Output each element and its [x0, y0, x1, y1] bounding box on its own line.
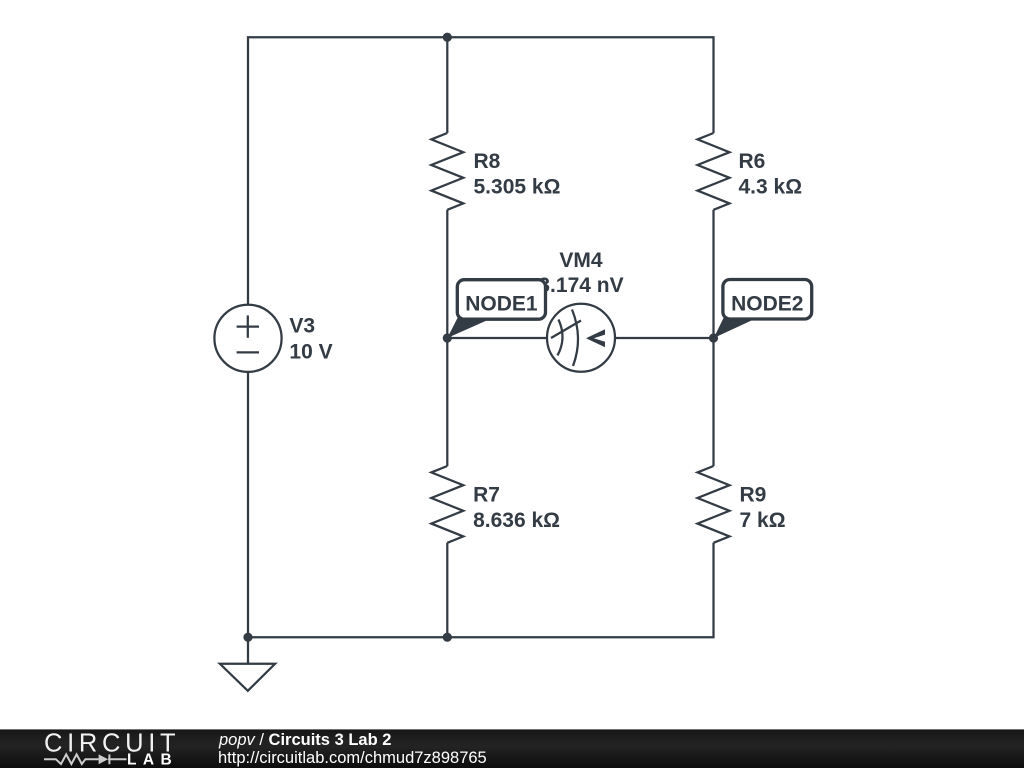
junction node NODE2 dot	[709, 333, 718, 342]
junction dot top middle	[443, 33, 452, 42]
wire right branch (NODE2 to R9)	[712, 338, 714, 466]
wire voltmeter row (NODE1 to NODE2)	[447, 337, 713, 339]
wire middle branch top (top rail to R8)	[446, 37, 448, 133]
resistor R6	[698, 133, 730, 210]
wire middle branch (R8 to NODE1)	[446, 210, 448, 338]
svg-text:LAB: LAB	[127, 751, 178, 768]
wire middle branch bottom (R7 to bottom rail)	[446, 543, 448, 637]
junction dot bottom middle	[443, 633, 452, 642]
svg-text:5.305 kΩ: 5.305 kΩ	[474, 175, 561, 198]
CircuitLab logo resistor-diode graphic	[44, 754, 127, 764]
wire middle branch (NODE1 to R7)	[446, 338, 448, 466]
svg-text:R7: R7	[473, 483, 500, 506]
svg-text:4.3 kΩ: 4.3 kΩ	[739, 175, 803, 198]
wire right branch (R6 to NODE2)	[712, 210, 714, 338]
svg-text:VM4: VM4	[559, 249, 603, 272]
svg-text:R9: R9	[740, 483, 767, 506]
svg-text:8.636 kΩ: 8.636 kΩ	[473, 509, 560, 532]
junction node NODE1 dot	[443, 333, 452, 342]
svg-text:7 kΩ: 7 kΩ	[740, 509, 786, 532]
svg-text:3.174 nV: 3.174 nV	[538, 274, 623, 297]
node NODE1 callout	[447, 280, 545, 338]
svg-text:NODE1: NODE1	[465, 292, 538, 315]
wire left vertical top, top rail and right branch top (V3 to R6)	[248, 37, 714, 305]
resistor R8	[431, 133, 463, 210]
voltmeter VM4	[547, 304, 615, 372]
node NODE2 callout	[714, 280, 812, 339]
svg-text:10 V: 10 V	[289, 341, 332, 364]
svg-text:http://circuitlab.com/chmud7z8: http://circuitlab.com/chmud7z898765	[218, 749, 487, 767]
svg-text:R6: R6	[739, 150, 766, 173]
resistor R7	[431, 466, 463, 543]
svg-text:popv / Circuits 3 Lab 2: popv / Circuits 3 Lab 2	[218, 731, 391, 749]
wire left vertical bottom (V3 to bottom rail)	[247, 372, 249, 638]
ground wire stub	[247, 637, 249, 664]
svg-text:R8: R8	[474, 150, 501, 173]
junction dot bottom left	[243, 633, 252, 642]
svg-text:V3: V3	[289, 315, 315, 338]
voltage source V3	[214, 305, 281, 372]
wire right branch bottom and bottom rail (R9 to bottom-left junction)	[248, 543, 714, 637]
ground symbol triangle	[220, 664, 275, 691]
svg-text:NODE2: NODE2	[731, 293, 803, 316]
resistor R9	[698, 466, 730, 543]
